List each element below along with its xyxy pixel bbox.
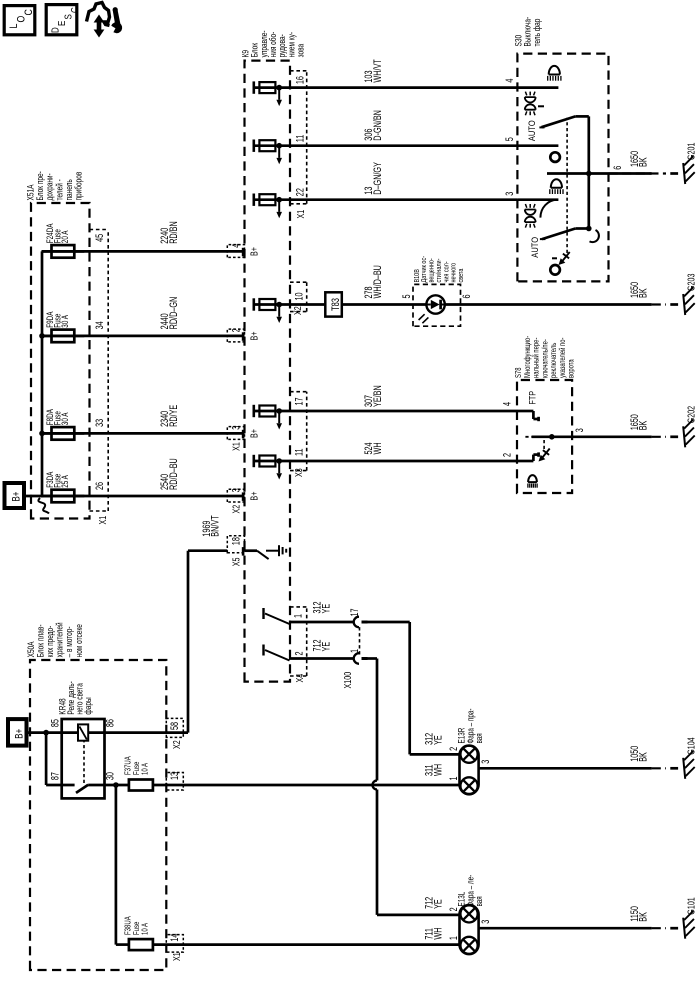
svg-text:тель фар: тель фар <box>532 19 542 47</box>
svg-text:2: 2 <box>230 328 242 332</box>
svg-text:C: C <box>69 7 80 13</box>
svg-text:6: 6 <box>460 294 472 298</box>
fuse block X51A box <box>31 203 90 519</box>
K9 output driver pin 11 X1 <box>253 140 256 152</box>
S30 spring return arc sw2 <box>590 230 599 242</box>
svg-text:ворота: ворота <box>567 359 576 378</box>
wire: 307 YE/BN K9-17 to S78-4 <box>254 410 518 413</box>
connector X1 of X51A (strip) <box>107 230 109 512</box>
S30 internal bus to pin 6 <box>587 116 590 228</box>
underhood fuse block X50A box <box>30 660 166 970</box>
wire: 712 YE to E13L pin 2 (hops over 311 WH) <box>366 657 377 660</box>
pin 13 box <box>166 773 183 791</box>
ground G203 <box>683 294 685 315</box>
svg-text:3: 3 <box>574 428 586 432</box>
svg-text:WH: WH <box>372 442 384 454</box>
svg-text:YE: YE <box>432 735 444 745</box>
svg-text:2: 2 <box>448 907 460 911</box>
K9 output driver pin 16 <box>253 81 256 93</box>
fuse F8DA 30A <box>42 432 85 435</box>
pin 4 B+ <box>227 245 244 258</box>
svg-text:D–GN/GY: D–GN/GY <box>372 162 384 195</box>
svg-text:D-GN/BN: D-GN/BN <box>372 110 384 141</box>
svg-text:1: 1 <box>448 936 460 940</box>
wire: fuse bus <box>41 251 44 497</box>
svg-text:B+: B+ <box>248 492 259 501</box>
in-line connector X100 pin 1 <box>354 653 359 664</box>
wire: 2340 RD/YE from F8DA <box>42 432 245 435</box>
svg-text:11: 11 <box>293 448 305 456</box>
wire: 524 WH K9-11 to S78-2 <box>254 460 518 463</box>
S78 mechanical link <box>543 437 545 449</box>
wire: 1969 BN/VT to K9 pin 18 <box>187 551 190 733</box>
svg-text:3: 3 <box>504 192 516 196</box>
S30 parking position icon sw2 <box>525 217 536 222</box>
svg-text:4: 4 <box>501 402 513 406</box>
svg-text:G203: G203 <box>685 274 697 291</box>
icon service arrow and wrench <box>87 3 110 26</box>
svg-text:вая: вая <box>474 733 484 743</box>
junction B+ to 87 <box>43 730 49 736</box>
svg-text:3: 3 <box>230 426 242 430</box>
svg-text:G104: G104 <box>685 737 697 754</box>
S30 detent tick sw1 <box>538 105 544 107</box>
headlamp left E13L <box>460 905 479 954</box>
svg-text:D: D <box>50 27 61 33</box>
svg-text:10 A: 10 A <box>140 763 150 775</box>
svg-text:RD/YE: RD/YE <box>168 405 180 427</box>
svg-text:4: 4 <box>504 79 516 83</box>
svg-text:16: 16 <box>294 76 306 84</box>
svg-text:X2: X2 <box>292 306 304 315</box>
svg-text:X2: X2 <box>230 505 242 514</box>
svg-text:AUTO: AUTO <box>529 236 540 257</box>
junction on bus at F9DA <box>39 333 45 339</box>
wire: S30 pin 6 to ground <box>547 172 652 175</box>
svg-text:X1: X1 <box>97 516 109 525</box>
svg-text:B+: B+ <box>10 491 23 501</box>
svg-text:S: S <box>63 14 74 19</box>
svg-text:X100: X100 <box>341 672 353 689</box>
S30 arc from pin 3 to parking contact <box>540 200 557 218</box>
svg-text:10 A: 10 A <box>140 923 150 935</box>
S78 dashed stub <box>525 436 531 438</box>
S30 mechanical link <box>566 118 568 253</box>
S78 lever icon <box>542 449 550 459</box>
svg-text:2: 2 <box>293 651 305 655</box>
svg-text:18: 18 <box>230 537 242 545</box>
wire: S78 pin 3 to ground <box>532 435 652 438</box>
wire: 103 WH/VT K9-16 to S30-4 <box>254 86 518 89</box>
svg-text:FTP: FTP <box>528 391 538 405</box>
S30 parking position icon sw1 <box>525 104 536 109</box>
ground G104 <box>683 758 685 779</box>
svg-text:X2: X2 <box>171 740 183 749</box>
svg-text:RD/BN: RD/BN <box>168 221 180 244</box>
S30 headlamp position icon (pin 4) <box>547 76 549 81</box>
svg-text:85: 85 <box>49 719 61 727</box>
svg-text:5: 5 <box>401 294 413 298</box>
wire: 13 D-GN/GY K9-22 to S30-3 <box>254 198 518 201</box>
S30 switch arm sw1 <box>542 116 576 127</box>
svg-text:BK: BK <box>637 752 649 762</box>
light sensor B10B box <box>413 284 461 326</box>
svg-text:45: 45 <box>94 234 106 242</box>
body control module K9 box <box>245 61 291 682</box>
wire into K9 ground switch <box>245 549 258 552</box>
B+ battery feed (engine compartment) <box>8 719 27 746</box>
K9 X4 low-side contact (pin 2) <box>262 645 264 656</box>
svg-text:2: 2 <box>501 453 513 457</box>
svg-text:RD/D–GN: RD/D–GN <box>168 297 180 330</box>
svg-text:фары: фары <box>83 697 93 715</box>
svg-text:87: 87 <box>49 772 61 780</box>
svg-text:BK: BK <box>637 911 649 921</box>
svg-text:30: 30 <box>104 772 116 780</box>
svg-text:YE: YE <box>320 604 332 614</box>
wire: B+ to relay 85 <box>26 731 62 734</box>
svg-text:1: 1 <box>448 776 460 780</box>
svg-text:14: 14 <box>169 934 181 942</box>
headlamp right E13R <box>460 746 479 795</box>
B10B photodiode <box>426 295 444 313</box>
svg-text:3: 3 <box>480 760 492 764</box>
relay contact blade <box>76 785 88 793</box>
S30 OFF position sw1 <box>550 152 560 162</box>
svg-text:RD/D–BU: RD/D–BU <box>168 458 180 490</box>
K9 pin 18 X5 input <box>227 536 244 553</box>
junction to F38UA <box>113 782 119 788</box>
icon LOC <box>4 6 35 35</box>
svg-text:34: 34 <box>94 321 106 329</box>
svg-text:BN/VT: BN/VT <box>209 515 221 537</box>
svg-text:вая: вая <box>474 896 484 906</box>
svg-text:5: 5 <box>504 137 516 141</box>
relay KR48 box <box>62 719 105 798</box>
svg-text:YE/BN: YE/BN <box>372 385 384 407</box>
relay coil <box>78 724 88 740</box>
wire: B+ feed to fuse bus <box>24 495 42 498</box>
svg-text:33: 33 <box>94 419 106 427</box>
wire: 1150 BK to G101 <box>479 927 652 930</box>
svg-text:X1: X1 <box>171 952 183 961</box>
svg-text:BK: BK <box>637 288 649 298</box>
svg-text:25 A: 25 A <box>60 474 70 487</box>
bus break squiggle <box>38 498 49 514</box>
wire: branch to F38UA <box>115 785 118 945</box>
svg-text:WH/D–BU: WH/D–BU <box>372 265 384 298</box>
connector X4 of K9 (pins 1,2) <box>306 607 308 676</box>
svg-text:B+: B+ <box>13 728 26 738</box>
junction at pin 6 wire <box>586 171 592 177</box>
in-line connector T83 <box>325 292 342 316</box>
svg-text:B+: B+ <box>248 247 259 256</box>
svg-text:X1: X1 <box>294 210 306 219</box>
wire: 1650 BK B10B-6 to G203 <box>445 303 652 306</box>
wire: 2440 RD/D-GN from F9DA <box>42 335 245 338</box>
pin 2 B+ <box>227 329 244 342</box>
junction on bus at F8DA <box>39 431 45 437</box>
K9 output driver pin 11 X3 <box>253 455 256 467</box>
svg-text:YE: YE <box>320 642 332 652</box>
fuse F38UA 10A <box>129 939 153 950</box>
ground G202 <box>683 426 685 447</box>
svg-text:G202: G202 <box>685 406 697 423</box>
svg-text:20 A: 20 A <box>60 230 70 243</box>
svg-text:BK: BK <box>637 420 649 430</box>
svg-text:4: 4 <box>230 244 242 248</box>
K9 output driver pin 10 <box>253 298 256 310</box>
S30 arm tip tick sw1 <box>539 126 544 128</box>
svg-text:11: 11 <box>294 135 306 143</box>
wire: 712 YE K9 X4-2 to X100-1 <box>289 657 353 660</box>
pin 3 B+ X2 <box>227 489 244 502</box>
svg-text:26: 26 <box>94 482 106 490</box>
svg-text:1: 1 <box>349 649 361 653</box>
K9 internal chassis ground <box>266 550 279 552</box>
wire: 306 D-GN/BN K9-11 to S30-5 <box>254 144 518 147</box>
svg-text:86: 86 <box>104 719 116 727</box>
S30 low-beam icon sw2 <box>549 189 551 194</box>
ground G101 <box>683 918 685 939</box>
svg-text:2: 2 <box>448 747 460 751</box>
connector X3 of K9 (pins 17,11) <box>306 392 308 471</box>
svg-text:E: E <box>56 21 67 26</box>
svg-text:зова: зова <box>295 43 305 57</box>
svg-text:приборов: приборов <box>74 172 84 201</box>
svg-text:WH/VT: WH/VT <box>372 59 384 83</box>
K9 X4 low-side contact (pin 1) <box>262 608 264 619</box>
multifunction switch S78 box <box>517 380 572 493</box>
relay link coil to contact <box>83 741 85 783</box>
svg-text:B+: B+ <box>248 332 259 341</box>
svg-text:C: C <box>23 9 35 15</box>
S78 FTP contact <box>518 410 533 413</box>
in-line connector X100 pin 17 <box>354 617 359 628</box>
junction S78 <box>549 434 555 440</box>
svg-text:6: 6 <box>612 166 624 170</box>
K9 internal switch blade to ground <box>257 551 269 559</box>
svg-text:13: 13 <box>169 772 181 780</box>
S78 low-beam contact <box>518 460 533 463</box>
pin 14 box <box>166 935 183 953</box>
S30 lever icon <box>562 252 570 262</box>
wire: 86 to X2-58 <box>105 731 189 734</box>
S30 OFF position sw2 <box>550 265 560 275</box>
S30 arm tip tick sw2 <box>540 238 546 240</box>
svg-text:G101: G101 <box>685 897 697 914</box>
svg-text:X5: X5 <box>230 557 242 566</box>
svg-text:1: 1 <box>292 614 304 618</box>
B+ battery feed (fuse panel) <box>5 483 25 508</box>
S30 detent tick sw2 <box>552 257 557 259</box>
connector X2 of K9 (pin 10) <box>306 282 308 311</box>
svg-text:L: L <box>8 23 20 28</box>
wire: relay 30 out <box>88 784 129 787</box>
pin 3 B+ X1 <box>227 427 244 440</box>
connector X1 of K9 (strip outputs 16,11,22) <box>306 71 308 204</box>
wire: 2240 RD/BN from F24DA <box>42 250 245 253</box>
svg-text:X3: X3 <box>293 468 305 477</box>
headlamp switch S30 box <box>517 54 608 282</box>
S78 low-beam icon <box>527 484 529 488</box>
wire: 311 WH to E13R pin 1 <box>153 784 460 787</box>
svg-text:X1: X1 <box>230 442 242 451</box>
svg-text:T83: T83 <box>328 298 341 311</box>
wire: 278 WH/D-BU K9-10 to B10B <box>254 303 325 306</box>
fuse F9DA 30A <box>42 335 85 338</box>
svg-text:BK: BK <box>637 157 649 167</box>
junction arm sw2 at bus end <box>586 226 592 232</box>
svg-text:X4: X4 <box>294 674 306 683</box>
ground G201 <box>683 163 685 184</box>
S30 switch arm sw2 <box>542 229 575 240</box>
K9 output driver pin 17 X3 <box>253 405 256 417</box>
svg-text:22: 22 <box>294 188 306 196</box>
wire: 312 YE to E13R pin 2 <box>366 621 410 624</box>
svg-text:3: 3 <box>480 920 492 924</box>
svg-text:3: 3 <box>230 488 242 492</box>
wire: 711 WH to E13L pin 1 <box>153 943 460 946</box>
svg-text:YE: YE <box>432 899 444 909</box>
fuse F24DA 20A <box>42 250 85 253</box>
svg-text:WH: WH <box>432 764 444 776</box>
wire: 312 YE K9 X4-1 to X100-17 <box>289 621 353 624</box>
wire: to relay 87 <box>45 733 48 785</box>
svg-text:17: 17 <box>349 608 361 616</box>
connector X100 dashed link <box>359 627 361 655</box>
svg-text:30 A: 30 A <box>60 412 70 425</box>
svg-text:B+: B+ <box>248 429 259 438</box>
fuse F37UA 10A <box>129 780 153 791</box>
wire: 1050 BK to G104 <box>479 767 652 770</box>
svg-text:ном отсеке: ном отсеке <box>74 624 84 657</box>
pin 58 box <box>166 718 183 737</box>
svg-text:10: 10 <box>293 292 305 300</box>
svg-text:G201: G201 <box>685 143 697 160</box>
icon DESC <box>46 5 77 35</box>
svg-text:58: 58 <box>169 722 181 730</box>
svg-text:WH: WH <box>432 928 444 940</box>
wire: 2540 RD/D-BU from F3DA <box>42 495 245 498</box>
svg-text:AUTO: AUTO <box>526 120 537 141</box>
svg-text:света: света <box>457 268 465 282</box>
fuse F3DA 25A <box>42 495 85 498</box>
svg-text:O: O <box>16 15 28 22</box>
svg-text:30 A: 30 A <box>60 314 70 327</box>
svg-text:17: 17 <box>293 397 305 405</box>
K9 output driver pin 22 <box>253 194 256 206</box>
B10B light rays <box>419 314 425 320</box>
